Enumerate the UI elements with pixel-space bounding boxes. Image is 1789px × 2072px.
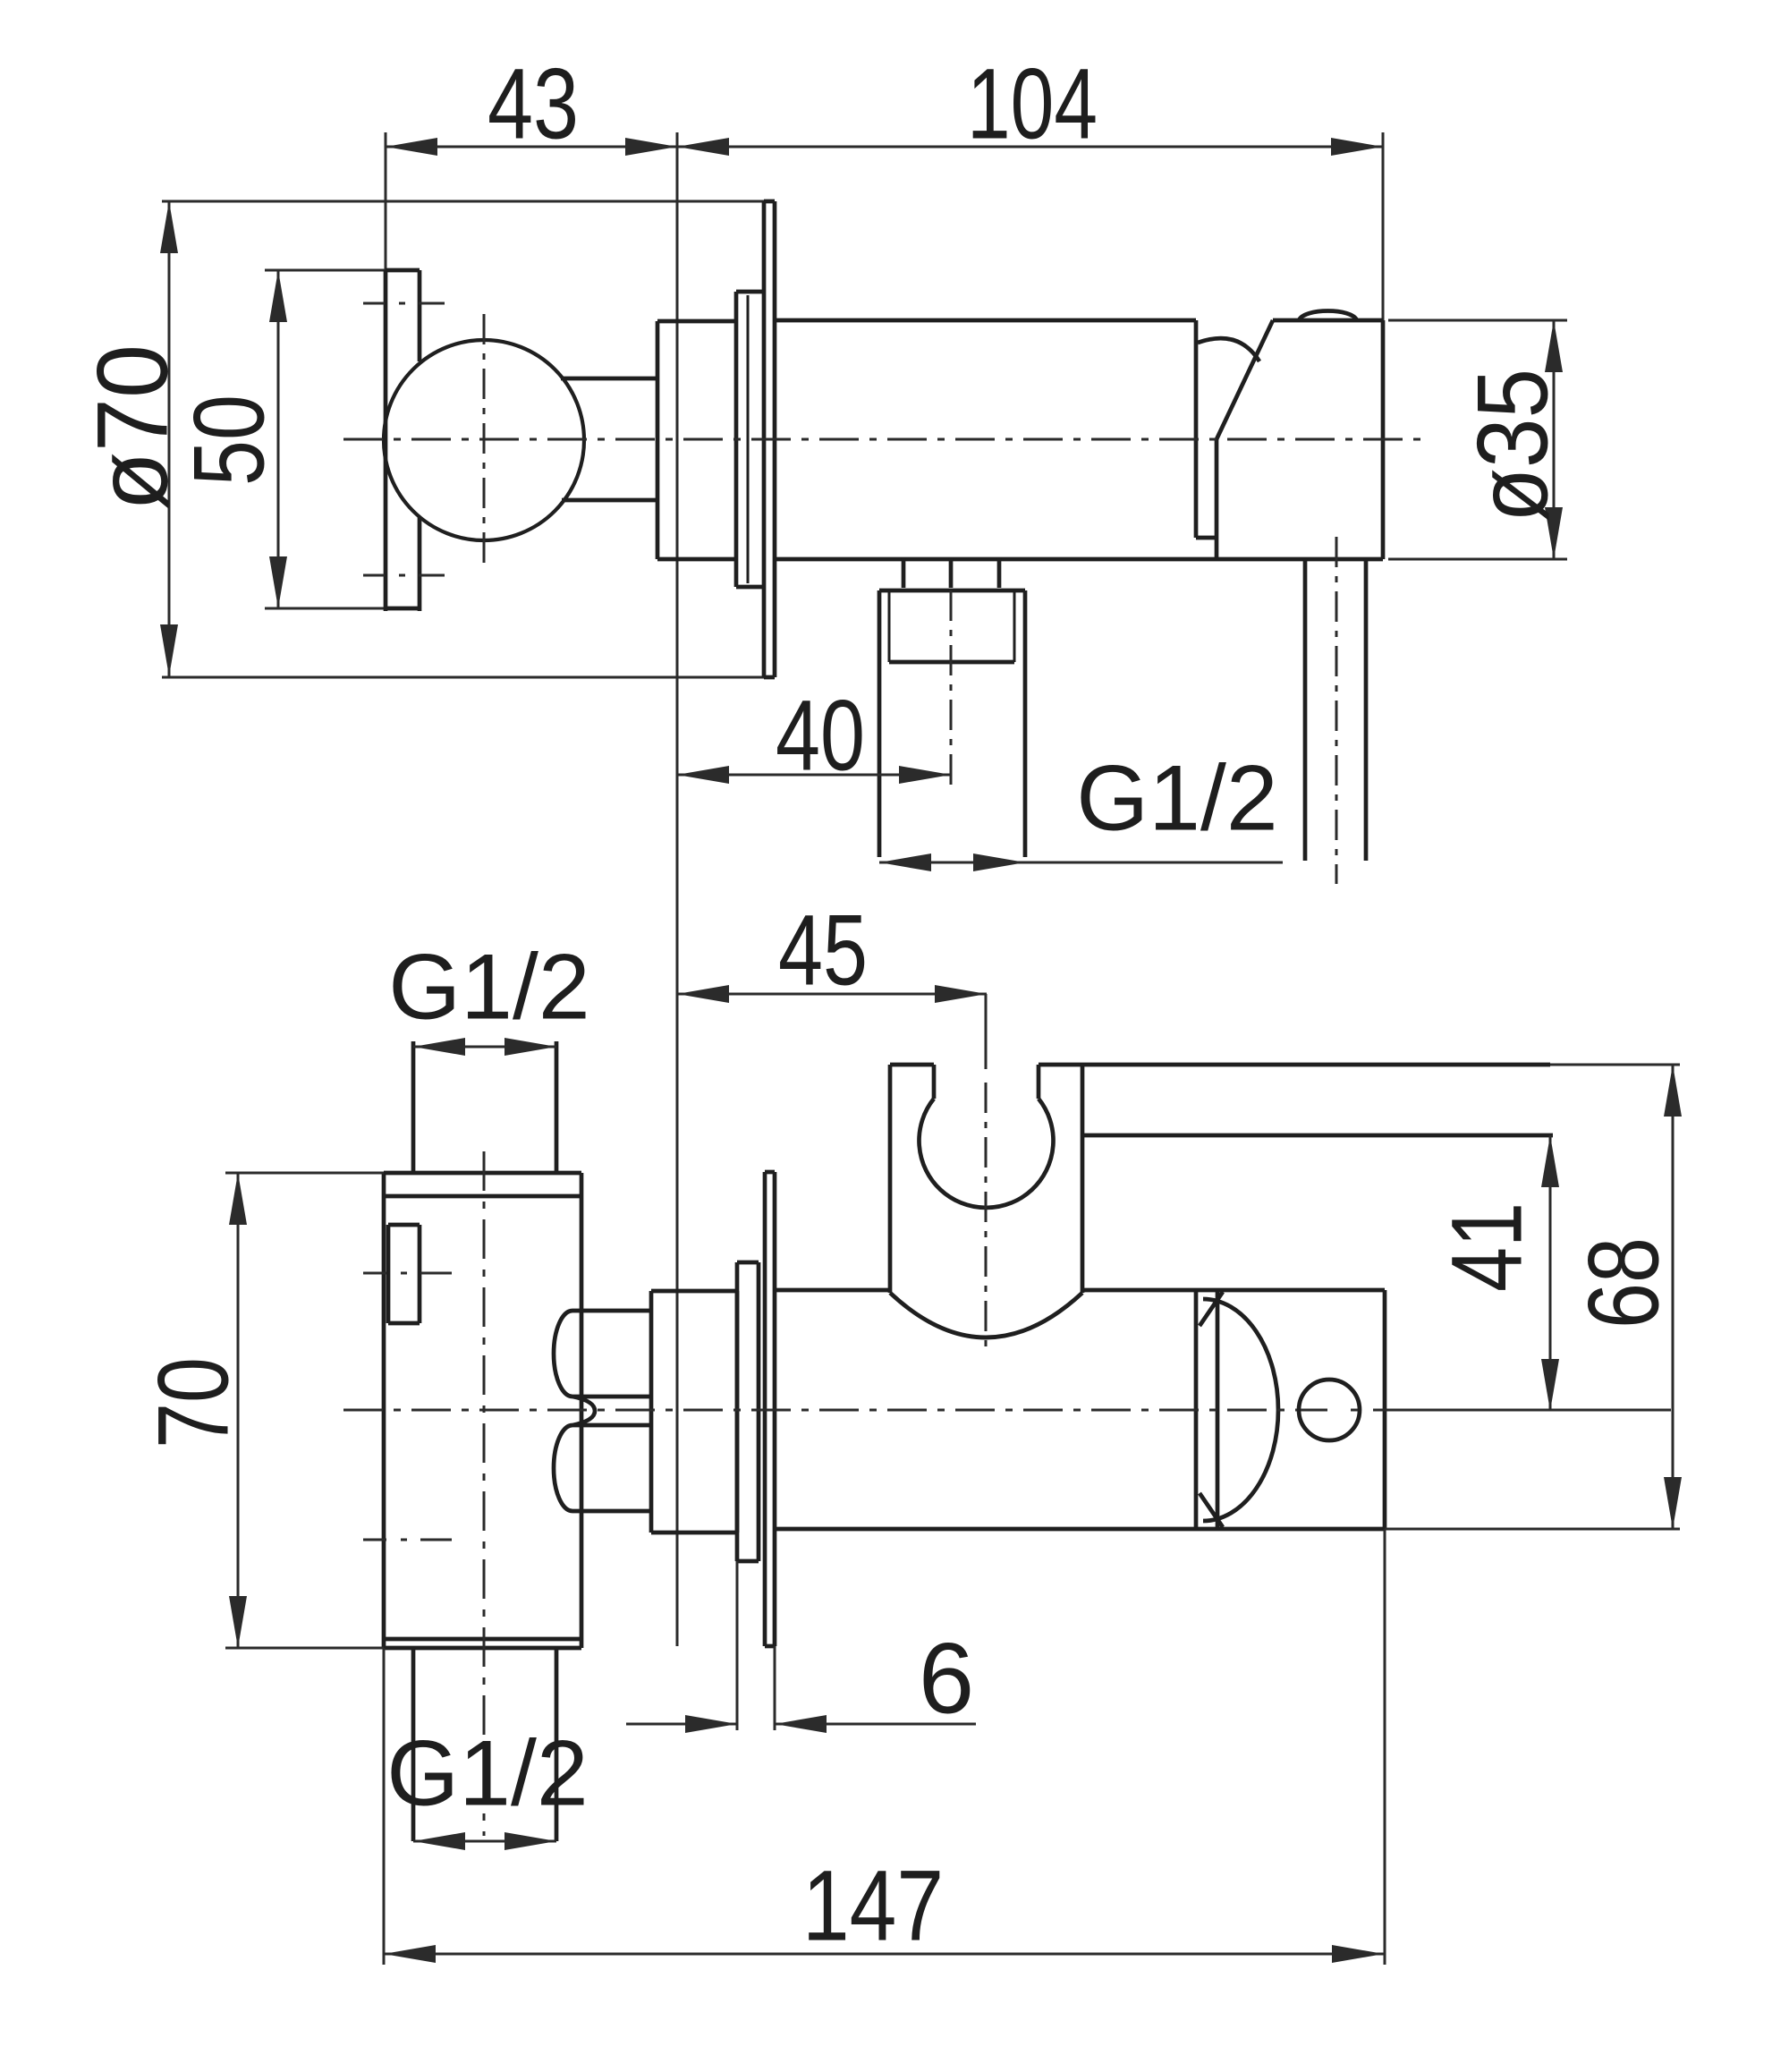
outlet stub [879, 590, 1025, 857]
dimension 45 [677, 894, 987, 1069]
ball knob [384, 340, 584, 540]
wand top edge [1039, 1063, 1680, 1067]
hub plan rect [651, 1291, 737, 1533]
extension line at x431 [385, 132, 387, 270]
svg-text:G1/2: G1/2 [388, 935, 589, 1039]
plan centerline [343, 1409, 1671, 1412]
port tick top [363, 1272, 452, 1275]
hole center dash [1301, 1409, 1358, 1412]
wall reference extension line x757 [676, 132, 679, 1646]
dimension G12 top [388, 935, 589, 1056]
knob vertical centerline [483, 314, 486, 571]
wall cover plate [764, 201, 775, 677]
grip plan rect [1217, 1290, 1385, 1529]
outlet neck [903, 558, 999, 588]
svg-text:70: 70 [137, 1357, 249, 1448]
housing box [225, 1173, 581, 1648]
nut plan [737, 1262, 759, 1561]
wand bottom edge [1082, 1134, 1553, 1138]
main centerline top view [343, 438, 1420, 441]
dimension 6 [626, 1561, 976, 1734]
svg-text:50: 50 [173, 395, 284, 486]
plate plan [765, 1172, 775, 1646]
svg-text:G1/2: G1/2 [1076, 746, 1277, 850]
handle escutcheon box [386, 270, 420, 611]
svg-text:104: 104 [967, 47, 1098, 159]
holder top edge [1273, 318, 1383, 323]
side port [388, 1225, 420, 1323]
holder clip [890, 1065, 1082, 1337]
svg-text:43: 43 [488, 47, 579, 159]
dimension G12 bottom [386, 1721, 588, 1850]
extension line y225 [162, 200, 764, 203]
dimension 70 [137, 1173, 249, 1648]
mounting nut [736, 292, 764, 587]
extension line y757 [162, 676, 764, 679]
svg-text:147: 147 [802, 1849, 944, 1961]
hose hole [1299, 1380, 1360, 1440]
dimension 41 [1430, 1135, 1559, 1411]
bottom inlet stub [413, 1648, 556, 1841]
dimension G12 outlet [879, 746, 1283, 871]
valve body cylinder [775, 320, 1383, 559]
hand shower grip [1305, 559, 1366, 861]
svg-text:ø35: ø35 [1456, 369, 1568, 522]
body plan right edge [1194, 1290, 1199, 1529]
spray head cone [1196, 320, 1273, 559]
body right end [1381, 320, 1386, 559]
grip centerline [1335, 537, 1338, 884]
dimension dia70 [76, 201, 188, 676]
body plan top edge [775, 1288, 1385, 1293]
dimension line 104 [677, 47, 1383, 159]
svg-text:ø70: ø70 [76, 344, 188, 511]
dimension 50 [173, 270, 287, 608]
svg-text:68: 68 [1567, 1237, 1679, 1329]
svg-text:G1/2: G1/2 [386, 1721, 588, 1825]
top inlet stub [413, 1041, 556, 1173]
extension line y680 [265, 607, 386, 610]
dimension line 43 [386, 47, 677, 159]
escutcheon tick top [363, 302, 445, 305]
holder bump [1299, 311, 1357, 321]
housing centerline vertical [483, 1151, 486, 1836]
body hub rectangle [657, 321, 736, 559]
extension line y302 [265, 269, 386, 272]
dimension 68 [1385, 1065, 1682, 1529]
svg-text:41: 41 [1430, 1202, 1542, 1292]
svg-text:45: 45 [778, 894, 868, 1006]
knob stem [561, 378, 657, 500]
cartridge bumps [554, 1311, 651, 1511]
outlet centerline [950, 590, 953, 789]
dimension 147 [384, 1529, 1385, 1965]
svg-text:40: 40 [776, 679, 865, 791]
port tick bottom [363, 1539, 452, 1541]
extension lines dia35 [1388, 320, 1567, 559]
escutcheon tick bottom [363, 574, 445, 577]
dimension 40 [677, 679, 951, 791]
body plan bottom edge [775, 1527, 1385, 1532]
spray head plan [1200, 1292, 1278, 1527]
svg-text:6: 6 [919, 1622, 974, 1734]
extension line at x1546 top [1382, 132, 1385, 324]
dimension dia35 [1456, 320, 1568, 559]
holder clip centerline [985, 1083, 988, 1347]
